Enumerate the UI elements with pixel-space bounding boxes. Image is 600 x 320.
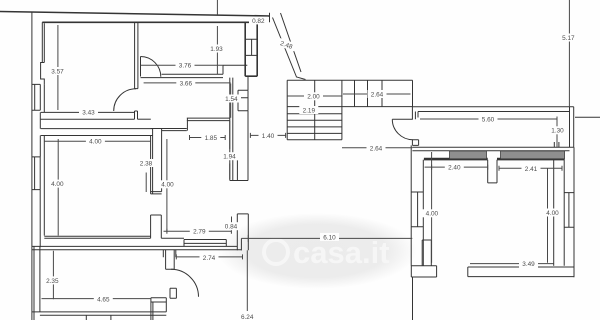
label 2.41 [522, 164, 541, 172]
door2 arc [114, 89, 136, 111]
dim 3.49 line [470, 263, 554, 265]
wall top exterior [42, 21, 267, 23]
door1 arc [141, 57, 161, 77]
svg-text:casa.it: casa.it [293, 235, 390, 270]
svg-text:2.00: 2.00 [307, 94, 320, 101]
window shaft box [238, 90, 248, 110]
svg-text:1.40: 1.40 [262, 133, 275, 140]
duct box mid [230, 160, 248, 180]
label 2.64 top [368, 90, 387, 98]
wall partition room1/room2 [135, 23, 138, 89]
svg-text:3.43: 3.43 [82, 110, 95, 117]
svg-text:2.64: 2.64 [370, 146, 383, 153]
wall band B step [240, 238, 242, 250]
dim 2.40 line [432, 165, 488, 170]
niche below band [184, 240, 226, 247]
recess bottom-left room [151, 298, 166, 320]
dim 3.76 line [141, 64, 223, 66]
window room2 right [246, 39, 257, 55]
dim 2.64 top line [343, 93, 411, 95]
wall hall band lower [41, 129, 153, 136]
label 2.00 [304, 92, 323, 100]
dim 4.00 rb right line [547, 168, 549, 262]
label 6.10 [320, 233, 339, 241]
line offsite right [575, 116, 600, 118]
wall left inner mid segments [39, 136, 41, 248]
svg-text:2.38: 2.38 [140, 160, 153, 167]
jamb door2 [135, 111, 138, 119]
svg-text:4.00: 4.00 [426, 211, 439, 218]
svg-text:3.49: 3.49 [522, 261, 535, 268]
wall room2 bottom band [141, 74, 224, 77]
label 4.00 rb left [422, 209, 441, 217]
svg-text:1.94: 1.94 [223, 154, 236, 161]
wall room A bottom band [44, 236, 150, 238]
dim 6.10 line [241, 235, 412, 242]
wall right bldg bottom L foot [411, 266, 436, 277]
dim 1.30 line [556, 119, 558, 147]
dim 2.74 line [176, 254, 242, 259]
gray wall fills [450, 151, 565, 159]
dim 2.38 line [145, 173, 147, 193]
dim 3.66 line [144, 82, 231, 84]
label 4.00 rb right [543, 209, 562, 217]
svg-text:2.74: 2.74 [203, 255, 216, 262]
wall terrace top outer [413, 106, 574, 108]
wall corridor lower lines [151, 129, 187, 131]
svg-text:6.24: 6.24 [241, 314, 254, 320]
label 2.74 [200, 253, 219, 261]
label 1.54 [222, 95, 241, 103]
window left wall upper [32, 84, 40, 110]
wall corridor band [187, 118, 230, 131]
pillar top notch [488, 160, 497, 183]
wall room A left inner [43, 136, 45, 236]
label 6.24 [238, 313, 257, 320]
dim 2.00 line [287, 95, 342, 97]
wall right bldg left inner face [422, 160, 424, 266]
wall block 084 [237, 214, 248, 250]
dim 4.00 rb left line [425, 152, 432, 263]
svg-text:5.60: 5.60 [482, 117, 495, 124]
door3 stub [166, 250, 175, 270]
label 0.82 [249, 17, 268, 25]
gray wall fill left [450, 151, 487, 159]
wall corridor/terrace divider pair [412, 107, 415, 119]
svg-text:4.65: 4.65 [97, 297, 110, 304]
window left wall lower [32, 157, 40, 190]
door4 jamb block [412, 140, 418, 146]
dim 4.65 line [42, 298, 151, 300]
dim 1.93 line [216, 26, 218, 74]
label 4.00 left [48, 180, 67, 188]
dim 1.85 line [190, 135, 226, 140]
pillar block room A corner [151, 215, 162, 238]
svg-text:2.64: 2.64 [371, 91, 384, 98]
label 5.17 [559, 34, 578, 43]
stairs treads [287, 114, 342, 134]
svg-text:5.17: 5.17 [562, 35, 575, 42]
wall spine right upper [247, 76, 249, 180]
label 2.79 [190, 227, 209, 235]
svg-text:0.84: 0.84 [225, 224, 238, 231]
boundary diagonal 2.48 outer [273, 18, 297, 78]
svg-text:2.41: 2.41 [525, 166, 538, 173]
label 1.85 [201, 134, 220, 142]
wall left exterior inner segment room1 [42, 22, 44, 62]
dim 5.17 line [568, 0, 570, 107]
door3 arc [171, 269, 199, 297]
svg-text:3.57: 3.57 [51, 68, 64, 75]
label 1.30 [548, 126, 567, 134]
wall right bldg outer right pair [564, 147, 574, 277]
svg-text:2.35: 2.35 [46, 278, 59, 285]
door4 arc [392, 119, 413, 140]
wall spine pair [230, 78, 233, 181]
label 1.93 [207, 45, 226, 54]
svg-text:4.00: 4.00 [51, 181, 64, 188]
wall room1 bottom band [41, 112, 135, 119]
svg-text:4.00: 4.00 [161, 182, 174, 189]
label 3.76 [176, 61, 195, 69]
wall right bldg left pair [410, 145, 412, 265]
label 2.19 [299, 106, 318, 114]
label 3.57 [48, 67, 67, 75]
door3 post [170, 288, 176, 298]
wall bottom-left room left inner [34, 246, 40, 320]
dim 1.40 line [250, 133, 285, 138]
label 4.65 [94, 295, 113, 303]
dim 3.57 line [57, 25, 59, 110]
window right bldg left [411, 192, 423, 227]
svg-text:1.54: 1.54 [225, 96, 238, 103]
label 2.38 [137, 159, 156, 167]
svg-text:3.66: 3.66 [180, 80, 193, 87]
wall terrace top inner [418, 112, 570, 118]
boundary diagonal toe [296, 77, 306, 80]
jamb terrace right [554, 142, 559, 147]
stairs cells dividers [355, 80, 413, 107]
window right bldg right [564, 193, 574, 228]
svg-text:4.00: 4.00 [89, 138, 102, 145]
dim 2.41 line [499, 166, 562, 171]
label 3.66 [176, 79, 195, 87]
wall bottom band B [32, 246, 242, 249]
svg-text:2.19: 2.19 [303, 107, 316, 114]
label 0.84 [222, 222, 241, 230]
svg-text:6.10: 6.10 [323, 234, 336, 241]
dim 4.00 mid line [166, 139, 168, 231]
label 4.00 hall [86, 137, 105, 145]
window bottom wall [86, 315, 111, 320]
svg-text:1.85: 1.85 [205, 135, 218, 142]
label 5.60 [479, 115, 498, 123]
wall line hall floor [161, 237, 184, 239]
dim 2.79 line [164, 229, 232, 234]
wall closet line [222, 64, 247, 66]
boundary diagonal 2.48 inner [281, 13, 302, 72]
label 3.49 [519, 260, 538, 268]
stairs center rail [314, 80, 316, 140]
svg-text:1.93: 1.93 [210, 46, 223, 53]
svg-text:3.76: 3.76 [179, 63, 192, 70]
svg-text:2.40: 2.40 [448, 165, 461, 172]
door1 leaf [140, 57, 142, 77]
wall left exterior outer line [31, 12, 33, 320]
property boundary line top [0, 12, 270, 17]
svg-text:1.30: 1.30 [551, 128, 564, 135]
label 2.35 [43, 276, 62, 284]
dim 0.84 line [231, 217, 233, 223]
wall left inner below window [40, 84, 44, 128]
label 2.64 mid [367, 144, 386, 152]
jamb pair below band [163, 250, 176, 258]
dim 1.54 line [230, 84, 232, 118]
wall line right of door2 [138, 118, 151, 120]
dim 1.94 line [229, 121, 231, 179]
wall right bldg top band [412, 147, 573, 151]
duct left-mid [151, 129, 162, 194]
wall jog room2 closet [222, 65, 224, 74]
dim 4.00 hall line [44, 140, 150, 142]
wall below continues [412, 277, 414, 320]
dim 6.24 line [246, 250, 248, 311]
label 1.40 [259, 132, 278, 140]
pillar bottom left [422, 240, 431, 266]
wall left notch [41, 63, 45, 85]
wall terrace right pair [570, 107, 574, 147]
label 1.94 [220, 152, 239, 160]
wall room2 right thick w window [245, 22, 257, 76]
wall partition left-mid room right [151, 129, 153, 194]
svg-text:0.82: 0.82 [252, 18, 265, 25]
label 2.40 [445, 163, 464, 171]
watermark casa.it [217, 213, 417, 289]
wall right bldg top inner face [424, 158, 564, 159]
label 4.00 mid [158, 180, 177, 188]
svg-text:2.79: 2.79 [193, 228, 206, 235]
dim 4.00 left line [57, 139, 59, 236]
wall bottom-left room bottom band [32, 312, 166, 315]
label 2.48 [276, 38, 297, 52]
boundary stub top right [269, 13, 271, 22]
svg-text:4.00: 4.00 [546, 210, 559, 217]
gray wall fill right [501, 151, 565, 159]
stairs outer [287, 80, 412, 140]
label 3.43 [79, 108, 98, 116]
dim 2.64 mid line [342, 147, 412, 149]
dim 1.93 upper stub [216, 0, 218, 15]
dim 5.60 line [420, 117, 557, 122]
door4 leaf [392, 118, 413, 120]
wall right bldg right inner face [553, 160, 555, 266]
stairs bottom line corridor [287, 106, 412, 108]
dim 2.35 line [52, 251, 54, 299]
wall right bldg bottom band [468, 267, 574, 277]
